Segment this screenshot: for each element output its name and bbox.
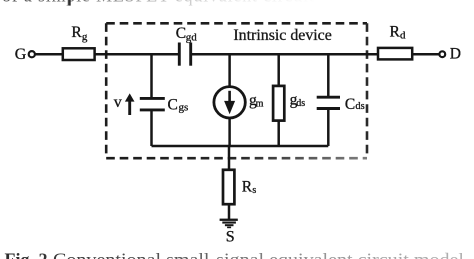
resistor Rd (378, 48, 412, 60)
resistor Rs (vertical box) (223, 170, 234, 204)
label gm (249, 92, 264, 110)
svg-text:G: G (15, 46, 27, 63)
svg-text:ds: ds (296, 98, 305, 109)
label Cgs (168, 96, 189, 113)
label Rd (390, 23, 407, 41)
terminal G (open circle) (29, 51, 35, 57)
capacitor Cgd (series, on top wire) (179, 43, 190, 66)
label v (114, 94, 122, 111)
label Cgd (176, 25, 198, 43)
svg-text:g: g (82, 31, 88, 43)
svg-text:D: D (450, 45, 461, 62)
label Rs (242, 178, 257, 196)
svg-text:R: R (242, 178, 253, 195)
svg-text:m: m (256, 99, 264, 110)
dashed box: intrinsic device bottom edge (fades to the right) (106, 157, 367, 160)
wire: drain node down to gds top (277, 54, 280, 86)
svg-text:C: C (345, 96, 355, 113)
dashed box: intrinsic device boundary left edge (105, 23, 108, 158)
voltage arrow v (points up) (125, 93, 135, 115)
svg-text:Fig. 2: Fig. 2 (5, 250, 48, 259)
dashed box: intrinsic device boundary top edge (106, 22, 367, 25)
label gds (290, 92, 306, 110)
wire: gds bottom to bottom rail (277, 121, 280, 146)
svg-text:S: S (226, 229, 235, 246)
label Cds (345, 96, 365, 113)
svg-text:C: C (168, 96, 178, 113)
wire: gate node down to Cgs top plate (150, 54, 153, 97)
node S label (226, 229, 235, 246)
svg-text:R: R (71, 24, 82, 41)
wire: gm source bottom to bottom rail (228, 118, 231, 146)
svg-text:Intrinsic device: Intrinsic device (233, 27, 331, 44)
figure caption (cropped at bottom edge): Fig. 2 Conventional small-signal equivalent circuit model (5, 250, 465, 259)
wire: Cds bottom plate down to bottom rail (327, 109, 330, 147)
svg-text:s: s (252, 185, 256, 196)
label Intrinsic device (233, 27, 331, 44)
ground (220, 219, 238, 229)
label Rg (71, 24, 88, 43)
resistor gds (vertical box) (273, 86, 284, 121)
capacitor Cgs (140, 98, 165, 110)
wire: Cgs bottom plate down to bottom rail (150, 110, 153, 146)
cropped text line at top of page (bottoms of letters only) (2, 0, 369, 6)
wire: Rg to Cgd left plate (gate node) (95, 53, 180, 56)
node G label (15, 46, 27, 63)
svg-text:of a simple MESFET equivalent: of a simple MESFET equivalent circuit mo… (2, 0, 369, 6)
svg-text:R: R (390, 23, 401, 40)
wire: Cgd right plate to Rd (drain node) (191, 53, 378, 56)
wire: drain node down to Cds top plate (327, 54, 330, 96)
svg-text:d: d (400, 29, 406, 41)
resistor Rg (63, 48, 95, 60)
wire: G terminal to Rg (35, 53, 63, 56)
current source gm (circle with down arrow) (214, 87, 245, 118)
wire: Rd to D terminal (412, 53, 439, 56)
svg-text:gs: gs (179, 102, 189, 114)
svg-text:C: C (176, 25, 186, 42)
svg-text:gd: gd (186, 31, 198, 43)
wire: Rs bottom to ground (228, 204, 231, 219)
svg-text:v: v (114, 94, 122, 111)
capacitor Cds (317, 97, 340, 108)
svg-text:ds: ds (355, 101, 364, 112)
node D label (450, 45, 461, 62)
wire: bottom rail (source node) (152, 145, 329, 148)
wire: bottom rail down to Rs (228, 146, 231, 170)
dashed box: intrinsic device boundary right edge (366, 23, 369, 158)
svg-text:Conventional small-signal equi: Conventional small-signal equivalent cir… (53, 250, 464, 259)
terminal D (open circle) (439, 51, 445, 57)
wire: drain node down to gm source top (228, 54, 231, 86)
